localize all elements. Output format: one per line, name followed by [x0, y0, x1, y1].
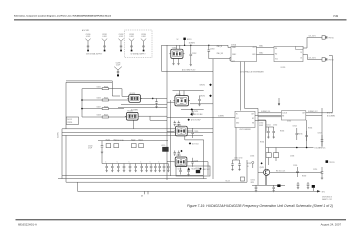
junction diamond RX VCO BUF	[190, 113, 192, 115]
sheet stub ticks	[144, 191, 146, 194]
svg-text:C5747: C5747	[318, 133, 322, 135]
svg-text:C: C	[140, 161, 141, 163]
svg-text:E5230: E5230	[196, 168, 200, 170]
wire resistor column left	[81, 89, 83, 117]
wire clock IC output	[306, 112, 333, 114]
svg-text:C5230: C5230	[178, 169, 182, 171]
svg-text:IN1: IN1	[275, 48, 277, 50]
svg-text:C5606: C5606	[97, 98, 101, 100]
svg-text:C5280: C5280	[86, 34, 91, 36]
svg-text:SHEET 1 OF 2: SHEET 1 OF 2	[322, 199, 332, 201]
svg-text:C5282: C5282	[119, 34, 124, 36]
svg-text:4.7UF: 4.7UF	[88, 148, 92, 150]
varactor CR5762	[200, 95, 212, 98]
capacitor C5744	[296, 128, 299, 140]
capacitor C5230	[179, 168, 182, 175]
wire right vertical from double bus	[111, 81, 113, 96]
svg-text:0.1UF: 0.1UF	[86, 36, 90, 38]
svg-text:SH 2: SH 2	[322, 191, 326, 193]
svg-text:R5746: R5746	[308, 128, 312, 130]
svg-text:Figure 7-19. HUD4022A/HUD4022: Figure 7-19. HUD4022A/HUD4022B Frequency…	[187, 204, 333, 208]
dashed box 5V digital supply	[125, 30, 153, 58]
svg-text:IN: IN	[236, 114, 237, 116]
svg-text:RX_VCO_CLK: RX_VCO_CLK	[276, 170, 285, 172]
rail 3	[66, 181, 247, 183]
svg-text:L5220: L5220	[161, 145, 165, 147]
net label box 16.8MHZ CLK	[230, 57, 240, 60]
svg-text:C5756: C5756	[251, 180, 255, 182]
oscillator Y5761 16.8MHz	[169, 47, 184, 58]
svg-text:Schematics, Component Location: Schematics, Component Location Diagrams,…	[14, 15, 112, 18]
svg-text:C: C	[129, 161, 130, 163]
wire transistor collector RX_VCO	[270, 171, 322, 173]
svg-text:33PF: 33PF	[251, 182, 254, 184]
svg-text:EN: EN	[252, 123, 254, 125]
capacitor C5741	[267, 127, 270, 137]
sheet 2 arrow	[317, 190, 321, 192]
svg-text:U5761: U5761	[281, 67, 286, 69]
wire filters to right	[140, 97, 167, 99]
crystal Y5762	[198, 96, 201, 105]
svg-text:6816522H01-A: 6816522H01-A	[18, 223, 37, 227]
svg-text:100PF: 100PF	[259, 125, 263, 127]
decoupling capacitor row	[105, 161, 169, 172]
wire right vertical	[321, 108, 323, 148]
svg-text:16.8MHZ: 16.8MHZ	[189, 43, 195, 45]
bottom rail to sheet 2	[78, 190, 318, 192]
junction diamond RX VCO	[199, 168, 201, 170]
wire buffer outputs to right section	[255, 115, 322, 117]
svg-text:16.8MHZ_CLK: 16.8MHZ_CLK	[261, 111, 270, 113]
rail 2	[58, 178, 207, 180]
svg-text:Q5741: Q5741	[260, 167, 265, 169]
testpoint TP5762	[322, 58, 334, 62]
junction diamond module A out	[191, 108, 193, 110]
svg-text:C5285: C5285	[116, 62, 121, 64]
svg-text:C5765: C5765	[194, 111, 199, 113]
svg-text:C5281: C5281	[102, 34, 107, 36]
wire cap row feed	[102, 163, 168, 165]
svg-text:EN: EN	[282, 116, 284, 118]
footer rule	[16, 219, 347, 220]
svg-text:GND: GND	[236, 123, 239, 125]
wire into clock IC pin1	[258, 112, 281, 114]
svg-text:FL5202: FL5202	[128, 111, 134, 113]
wire synth to buffer pin2	[256, 54, 274, 56]
svg-text:August 24, 2007: August 24, 2007	[321, 223, 342, 227]
capacitor C5747	[321, 135, 324, 146]
capacitor C5206	[191, 158, 198, 167]
capacitor C5241 below rail	[238, 160, 241, 169]
ferrite bead E5742	[312, 185, 315, 188]
svg-text:C5749: C5749	[293, 165, 297, 167]
wire B+ to oscillator	[184, 40, 186, 45]
svg-text:5V: 5V	[177, 39, 179, 41]
svg-text:VCC: VCC	[232, 61, 235, 63]
testpoint TP5741	[326, 160, 335, 164]
svg-text:C5743: C5743	[250, 156, 254, 158]
junction diamond above module C	[180, 150, 182, 152]
svg-text:7-31: 7-31	[333, 15, 338, 18]
svg-text:U5201: U5201	[176, 94, 181, 96]
svg-text:CR5761: CR5761	[200, 85, 206, 87]
junction dots	[81, 99, 83, 101]
junction dot F1 out	[152, 98, 154, 100]
resistor R5221	[114, 144, 119, 148]
svg-text:C5220: C5220	[88, 145, 93, 147]
svg-text:C5742: C5742	[273, 125, 277, 127]
svg-text:0.1UF: 0.1UF	[102, 36, 106, 38]
wire module A top feed	[173, 90, 204, 92]
svg-text:C5284: C5284	[141, 34, 146, 36]
wire inter-filter routing	[121, 104, 167, 106]
svg-text:R5749: R5749	[302, 176, 306, 178]
ferrite bead E5741	[277, 184, 280, 187]
header rule	[14, 19, 347, 20]
varactor CR5761	[200, 84, 212, 87]
B+ feed square	[177, 38, 192, 41]
svg-text:C5283: C5283	[129, 34, 134, 36]
capacitor C5280 bypass	[85, 34, 90, 51]
VCO module U5202	[174, 124, 189, 135]
wire oscillator output to synthesizer	[168, 44, 229, 46]
bus line 2	[62, 131, 213, 133]
capacitor C5233 in sub-box	[187, 168, 190, 175]
resistor R5747 vertical	[266, 153, 271, 158]
VCO module U5203	[174, 155, 189, 167]
wire drop to bottom rail	[77, 182, 79, 191]
wire clk to buffer column	[212, 59, 214, 179]
IC U5751 Fractional-N synthesizer	[231, 46, 256, 63]
resistor R5203 row	[82, 108, 124, 110]
bus line 1	[62, 128, 213, 130]
svg-text:C5605: C5605	[97, 86, 101, 88]
svg-text:O1: O1	[300, 52, 302, 54]
svg-text:MOD: MOD	[252, 54, 255, 56]
wire clock row	[266, 147, 314, 149]
svg-text:7290727E47-O: 7290727E47-O	[322, 196, 333, 198]
svg-text:C5763: C5763	[210, 49, 215, 51]
svg-text:C5740: C5740	[259, 123, 263, 125]
svg-text:C5205: C5205	[194, 131, 199, 133]
capacitor C5207 above module B	[174, 121, 177, 127]
svg-text:C5608: C5608	[97, 115, 101, 117]
capacitor C5208 above module B	[178, 121, 181, 127]
junction diamond above transistor	[261, 162, 263, 164]
junction diamond	[189, 142, 191, 144]
svg-text:R5743: R5743	[280, 131, 284, 133]
capacitor C5205	[191, 128, 198, 138]
wire mod line	[190, 103, 213, 105]
resistor R5222	[132, 144, 137, 148]
resistor R5201 row	[82, 88, 122, 90]
svg-text:Y5761: Y5761	[172, 47, 177, 49]
svg-text:C5741: C5741	[267, 125, 271, 127]
filter FL5202	[125, 111, 140, 121]
svg-text:OUT: OUT	[253, 47, 256, 49]
svg-text:C: C	[167, 161, 168, 163]
resistor R5220	[106, 144, 111, 148]
resistor R5223	[139, 144, 144, 148]
svg-text:R5223: R5223	[139, 139, 143, 141]
IC U5711 clock buffer	[235, 111, 255, 127]
capacitor C5746	[305, 131, 308, 141]
capacitor C5240 below rail	[235, 128, 237, 161]
svg-text:OUT: OUT	[251, 114, 254, 116]
svg-text:C: C	[117, 161, 118, 163]
svg-text:TP5762: TP5762	[328, 60, 333, 62]
svg-text:CNTRL: CNTRL	[67, 122, 72, 124]
svg-text:C5607: C5607	[97, 106, 101, 108]
capacitor C5283 bypass	[129, 34, 134, 51]
capacitor C5232 above module C	[178, 151, 181, 157]
svg-text:R5745: R5745	[298, 134, 302, 136]
svg-text:0.1UF: 0.1UF	[116, 65, 120, 67]
wire into buffer	[167, 117, 235, 119]
wire left column vertical	[257, 108, 259, 185]
capacitor C5754	[307, 182, 310, 188]
wire left drop x162	[162, 44, 168, 46]
svg-text:R5744: R5744	[260, 142, 264, 144]
testpoint TP5761	[322, 36, 334, 40]
wire left vertical	[65, 82, 67, 129]
wire cluster top rail	[98, 140, 168, 142]
svg-text:CLK_IN: CLK_IN	[282, 113, 287, 115]
svg-text:C5744: C5744	[293, 126, 297, 128]
resistor R5202 row	[82, 99, 129, 101]
svg-text:NC: NC	[252, 118, 254, 120]
junction diamond	[187, 168, 190, 171]
rail 1	[62, 174, 203, 176]
ground arrow below synth	[278, 98, 280, 104]
wire mid vertical	[306, 120, 308, 148]
svg-text:VCC: VCC	[236, 118, 239, 120]
wire F2 drop to bus	[132, 120, 134, 129]
capacitor C5763	[208, 45, 215, 56]
wire into clock IC pin2	[258, 116, 281, 118]
wire module A bottom row	[181, 108, 204, 110]
transistor Q5741	[260, 167, 270, 176]
wire VCO outputs right	[184, 136, 186, 140]
resistor R5748 vertical	[273, 153, 278, 158]
capacitor C5765	[191, 110, 198, 117]
svg-text:R5742: R5742	[247, 163, 251, 165]
svg-text:TP5761: TP5761	[328, 38, 333, 40]
svg-text:CLK_OUT2: CLK_OUT2	[309, 58, 316, 60]
svg-text:U5741: U5741	[287, 121, 291, 123]
svg-text:B 16.8MHZ CLK: B 16.8MHZ CLK	[315, 148, 326, 150]
svg-text:CLK_OUT1: CLK_OUT1	[309, 36, 316, 38]
capacitor C5753	[297, 182, 300, 188]
svg-text:C5762: C5762	[192, 53, 197, 55]
svg-text:VCNTRL: VCNTRL	[58, 132, 60, 138]
resistor R5204 row	[82, 116, 127, 118]
wire double bus top	[66, 80, 112, 82]
svg-text:C: C	[150, 161, 151, 163]
capacitor C5285 bypass 5V analog	[114, 62, 122, 76]
svg-text:R5222: R5222	[131, 139, 135, 141]
capacitor C5751	[255, 185, 258, 190]
svg-text:TP5741: TP5741	[329, 162, 334, 164]
svg-text:0.1UF: 0.1UF	[141, 36, 145, 38]
svg-text:FL5201: FL5201	[130, 93, 136, 95]
bus line 3	[62, 134, 203, 136]
capacitor C5742	[272, 127, 275, 137]
inductor L5220	[161, 145, 169, 152]
svg-text:C5755: C5755	[313, 169, 317, 171]
svg-text:B 16.8MHZ: B 16.8MHZ	[327, 116, 335, 118]
capacitor C5749	[296, 167, 299, 177]
capacitor C5752	[272, 185, 275, 190]
svg-text:SH 2-3: SH 2-3	[67, 119, 72, 121]
wire emitter down	[266, 175, 268, 185]
svg-text:0.1UF: 0.1UF	[129, 36, 133, 38]
wire VCO column verticals	[166, 45, 168, 180]
filter FL5201	[127, 93, 142, 102]
capacitor C5284 bypass	[141, 34, 146, 51]
capacitor C5282 bypass	[118, 34, 123, 51]
sheet reference box SH2	[66, 117, 78, 124]
svg-text:C5748: C5748	[290, 156, 294, 158]
wire 16.8MHz clock	[208, 56, 210, 59]
svg-text:16.8MHZ_OUT: 16.8MHZ_OUT	[308, 111, 318, 113]
svg-text:IN2: IN2	[275, 53, 277, 55]
capacitor C5281 bypass	[102, 34, 107, 51]
junction dots row	[296, 147, 298, 149]
svg-text:0.1UF: 0.1UF	[119, 36, 123, 38]
wire synth to buffer pin1	[256, 47, 274, 49]
svg-text:R5220: R5220	[106, 139, 110, 141]
junction diamond above module B	[188, 119, 190, 121]
wire from bus to filters	[121, 89, 123, 97]
wire buffer out2 to testpoint	[303, 54, 308, 56]
IC U5741 clock distribution	[281, 111, 305, 120]
svg-text:R5761: R5761	[187, 39, 192, 41]
svg-text:OUT: OUT	[302, 113, 305, 115]
resistor R5762 vertical	[173, 58, 175, 63]
wire long vertical 5V RF	[332, 56, 334, 112]
svg-text:VCC: VCC	[275, 59, 278, 61]
bus vertical left	[61, 129, 63, 179]
svg-text:16.8MHZ: 16.8MHZ	[218, 116, 224, 118]
svg-text:C: C	[105, 161, 106, 163]
svg-text:C5206: C5206	[194, 160, 199, 162]
IC U5761 reference buffer	[274, 46, 303, 61]
capacitor C5610	[155, 98, 158, 106]
wire transistor base	[258, 171, 264, 173]
svg-text:C5712 C5713: C5712 C5713	[234, 158, 243, 160]
svg-text:1K: 1K	[247, 166, 249, 168]
VCO module U5201	[173, 94, 190, 106]
resistor R5240	[241, 177, 245, 181]
svg-text:U5711 BUFFER: U5711 BUFFER	[239, 129, 251, 131]
wire buffer out1 to testpoint	[303, 47, 307, 49]
svg-text:O2: O2	[300, 57, 302, 59]
capacitor C5231 above module C	[174, 151, 177, 157]
capacitor C5750	[321, 167, 324, 178]
wire synth bottom drops	[239, 62, 241, 111]
sub-circuit box	[176, 166, 210, 176]
ferrite E5230	[196, 170, 200, 173]
svg-text:CR5762: CR5762	[200, 96, 206, 98]
sheet reference small circle	[252, 161, 254, 163]
svg-text:C: C	[158, 161, 159, 163]
wire bottom row	[252, 184, 285, 186]
capacitor C5762	[190, 45, 197, 64]
